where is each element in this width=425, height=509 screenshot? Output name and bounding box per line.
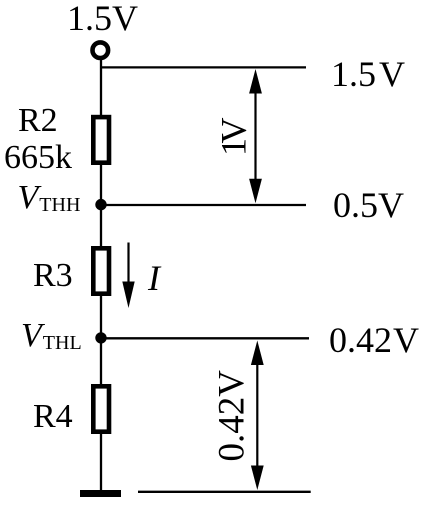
svg-text:1.5V: 1.5V — [331, 54, 405, 94]
svg-text:1V: 1V — [213, 118, 253, 157]
resistor R2 — [93, 117, 109, 163]
wire: horizontal line from supply node to right (1.5V level) — [101, 66, 306, 68]
current arrow I — [122, 243, 134, 309]
resistor R3 — [93, 248, 109, 293]
svg-text:665k: 665k — [4, 139, 72, 176]
wire: horizontal line from VTHH node to right (0.5V level) — [101, 204, 306, 206]
resistor R4 — [93, 386, 109, 431]
node VTHL junction dot — [95, 332, 106, 343]
svg-text:0.42V: 0.42V — [212, 370, 253, 462]
svg-text:R3: R3 — [33, 257, 73, 294]
wire: main vertical rail — [100, 59, 102, 490]
svg-text:1.5V: 1.5V — [67, 0, 138, 38]
svg-text:R2: R2 — [18, 102, 58, 139]
dimension arrow: 0.42V span between 0.42V line and ground line — [251, 341, 264, 491]
dimension arrow: 1V span between 1.5V and 0.5V lines — [249, 69, 262, 203]
node VTHH junction dot — [95, 199, 106, 210]
wire: bottom reference line (0V level) — [138, 491, 311, 493]
terminal: 1.5V supply open circle — [93, 42, 109, 58]
svg-text:I: I — [147, 258, 162, 298]
svg-text:0.5V: 0.5V — [333, 185, 404, 225]
ground — [80, 490, 121, 497]
svg-text:R4: R4 — [33, 398, 73, 435]
svg-text:0.42V: 0.42V — [329, 320, 419, 360]
wire: horizontal line from VTHL node to right (0.42V level) — [101, 337, 309, 339]
